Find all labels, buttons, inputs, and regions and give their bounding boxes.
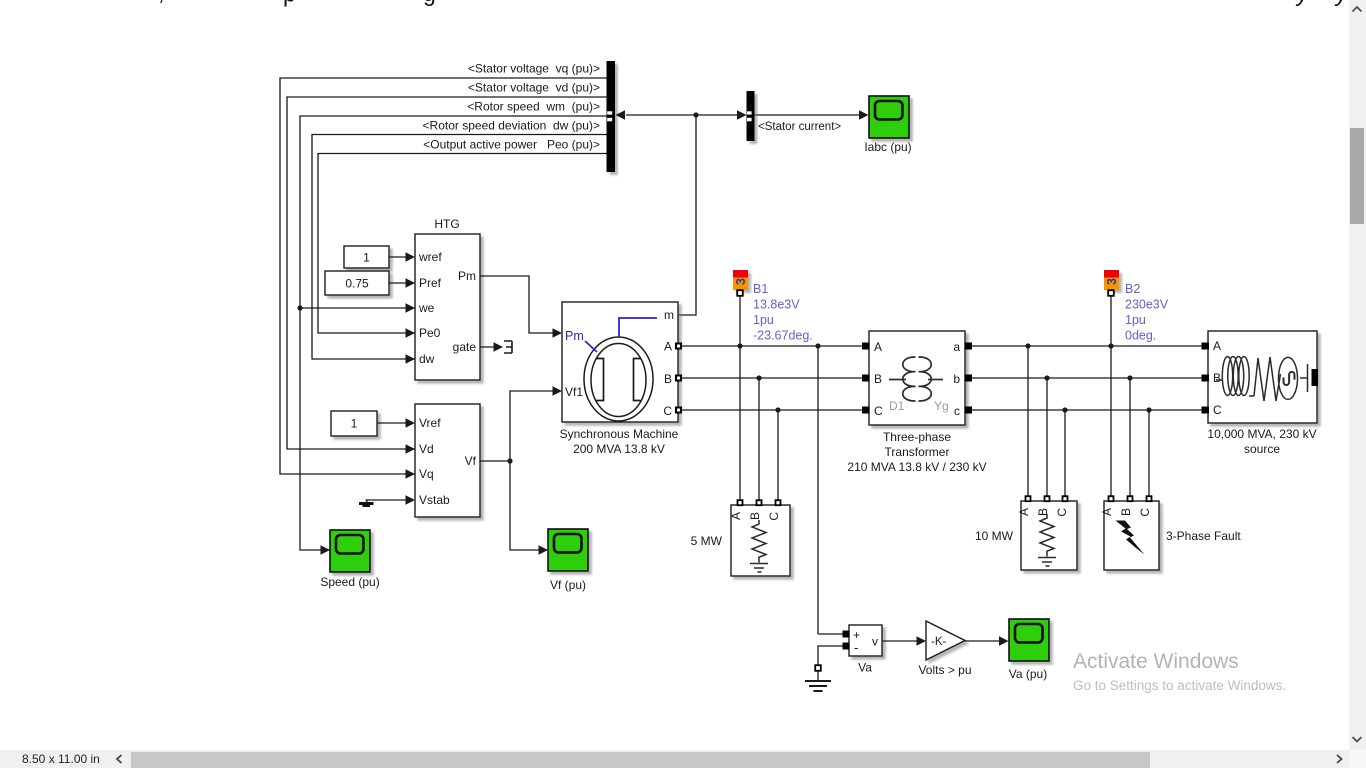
svg-text:B1: B1	[753, 282, 768, 296]
svg-text:HTG: HTG	[434, 217, 459, 231]
svg-text:B: B	[1036, 508, 1050, 516]
svg-text:Pe0: Pe0	[419, 326, 441, 340]
svg-text:1: 1	[363, 251, 370, 265]
svg-text:<Stator voltage vq (pu)>: <Stator voltage vq (pu)>	[468, 62, 600, 76]
svg-text:D1: D1	[889, 399, 905, 413]
svg-text:,: ,	[158, 0, 164, 5]
svg-text:A: A	[874, 340, 882, 354]
svg-text:210 MVA 13.8 kV / 230 kV: 210 MVA 13.8 kV / 230 kV	[847, 460, 986, 474]
svg-text:Activate Windows: Activate Windows	[1073, 650, 1239, 673]
svg-text:Go to Settings to activate Win: Go to Settings to activate Windows.	[1073, 678, 1286, 693]
svg-text:Three-phase: Three-phase	[883, 430, 951, 444]
svg-text:Vf1: Vf1	[565, 385, 583, 399]
svg-text:C: C	[1055, 508, 1069, 517]
svg-text:Pm: Pm	[458, 269, 476, 283]
svg-text:Va (pu): Va (pu)	[1009, 667, 1047, 681]
svg-text:200 MVA 13.8 kV: 200 MVA 13.8 kV	[573, 442, 665, 456]
svg-text:B: B	[1119, 508, 1133, 516]
svg-text:A: A	[1100, 508, 1114, 516]
svg-text:y: y	[1334, 0, 1349, 6]
svg-text:C: C	[1213, 403, 1222, 417]
svg-text:Transformer: Transformer	[885, 445, 950, 459]
svg-text:3: 3	[734, 278, 748, 285]
svg-text:Vf (pu): Vf (pu)	[550, 578, 586, 592]
svg-text:<Stator voltage vd (pu)>: <Stator voltage vd (pu)>	[468, 81, 600, 95]
svg-text:0deg.: 0deg.	[1125, 329, 1156, 343]
svg-text:gate: gate	[453, 340, 477, 354]
svg-text:A: A	[664, 340, 672, 354]
svg-text:A: A	[1213, 339, 1221, 353]
svg-text:C: C	[1138, 508, 1152, 517]
svg-text:13.8e3V: 13.8e3V	[753, 298, 800, 312]
svg-text:Vf: Vf	[465, 454, 477, 468]
svg-text:Vq: Vq	[419, 467, 434, 481]
svg-text:c: c	[954, 404, 960, 418]
svg-text:A: A	[729, 512, 743, 520]
svg-text:1pu: 1pu	[1125, 313, 1146, 327]
svg-text:wref: wref	[418, 250, 442, 264]
svg-text:g: g	[423, 0, 436, 6]
svg-text:B: B	[748, 512, 762, 520]
svg-text:a: a	[953, 340, 960, 354]
svg-text:3: 3	[1105, 278, 1119, 285]
svg-text:B: B	[664, 372, 672, 386]
svg-text:Pref: Pref	[419, 276, 442, 290]
svg-text:B: B	[1213, 371, 1221, 385]
svg-text:C: C	[663, 404, 672, 418]
svg-text:A: A	[1017, 508, 1031, 516]
svg-text:Speed (pu): Speed (pu)	[320, 575, 379, 589]
svg-text:Iabc (pu): Iabc (pu)	[864, 140, 911, 154]
svg-text:<Rotor speed deviation dw (pu: <Rotor speed deviation dw (pu)>	[423, 119, 600, 133]
svg-text:y: y	[1295, 0, 1310, 6]
svg-text:we: we	[418, 301, 435, 315]
svg-text:10,000 MVA, 230 kV: 10,000 MVA, 230 kV	[1207, 427, 1316, 441]
svg-text:-23.67deg.: -23.67deg.	[753, 329, 813, 343]
svg-text:Yg: Yg	[934, 399, 949, 413]
svg-text:<Output active power Peo (pu: <Output active power Peo (pu)>	[423, 138, 600, 152]
svg-text:Volts > pu: Volts > pu	[918, 663, 971, 677]
svg-text:m: m	[664, 308, 674, 322]
svg-text:-: -	[854, 640, 858, 655]
svg-text:C: C	[767, 512, 781, 521]
svg-text:source: source	[1244, 442, 1280, 456]
svg-text:v: v	[872, 635, 878, 649]
svg-text:5 MW: 5 MW	[691, 534, 723, 548]
svg-text:<Stator current>: <Stator current>	[758, 121, 841, 133]
svg-text:Pm: Pm	[565, 329, 584, 343]
svg-text:B: B	[874, 372, 882, 386]
svg-text:Vref: Vref	[419, 416, 441, 430]
svg-text:b: b	[953, 372, 960, 386]
svg-text:Va: Va	[858, 661, 872, 675]
svg-text:dw: dw	[419, 352, 435, 366]
svg-text:3-Phase Fault: 3-Phase Fault	[1166, 529, 1241, 543]
svg-text:C: C	[874, 404, 883, 418]
svg-text:p: p	[283, 0, 296, 7]
svg-text:1: 1	[351, 417, 358, 431]
svg-text:B2: B2	[1125, 282, 1140, 296]
svg-text:Vstab: Vstab	[419, 493, 450, 507]
svg-text:Synchronous Machine: Synchronous Machine	[560, 427, 679, 441]
svg-text:<Rotor speed wm (pu)>: <Rotor speed wm (pu)>	[467, 100, 600, 114]
svg-text:8.50 x 11.00 in: 8.50 x 11.00 in	[22, 752, 100, 766]
svg-text:Vd: Vd	[419, 442, 434, 456]
svg-text:10 MW: 10 MW	[975, 529, 1014, 543]
svg-text:1pu: 1pu	[753, 313, 774, 327]
svg-text:-K-: -K-	[931, 636, 947, 648]
svg-text:230e3V: 230e3V	[1125, 298, 1169, 312]
svg-text:0.75: 0.75	[345, 277, 369, 291]
